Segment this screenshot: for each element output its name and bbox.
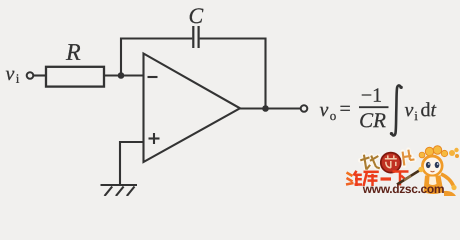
svg-text:i: i	[414, 108, 418, 123]
svg-text:v: v	[6, 63, 15, 85]
svg-text:=: =	[339, 98, 350, 120]
svg-text:v: v	[319, 99, 328, 121]
svg-text:o: o	[330, 108, 337, 123]
svg-text:R: R	[65, 40, 81, 66]
svg-text:t: t	[430, 99, 436, 121]
svg-text:i: i	[16, 71, 20, 86]
svg-text:d: d	[420, 99, 430, 121]
svg-text:CR: CR	[359, 108, 386, 132]
svg-text:−1: −1	[361, 85, 382, 107]
svg-text:C: C	[189, 3, 204, 28]
svg-text:v: v	[404, 99, 413, 121]
svg-text:www.dzsc.com: www.dzsc.com	[362, 182, 444, 196]
